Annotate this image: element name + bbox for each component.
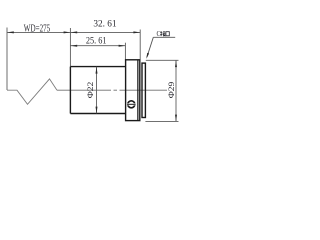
break line (zigzag) bbox=[7, 79, 57, 104]
extension line at x=70.4 bbox=[69, 28, 71, 66]
C-interface ring bbox=[142, 63, 145, 117]
dimension 25.61 bbox=[70, 36, 125, 47]
dimension Phi29 (vertical, right side) bbox=[145, 60, 178, 121]
flange bbox=[126, 60, 140, 121]
extension line left (x=7) bbox=[6, 28, 8, 91]
dimension Phi22 (vertical, inside cylinder) bbox=[85, 67, 98, 114]
extension line at x=125.4 bbox=[124, 43, 126, 60]
svg-text:Φ22: Φ22 bbox=[85, 82, 95, 99]
svg-text:32. 61: 32. 61 bbox=[93, 18, 116, 29]
svg-text:25. 61: 25. 61 bbox=[86, 36, 107, 47]
hanzi 接 bbox=[160, 31, 165, 36]
cylinder body (Phi22 shaft) bbox=[70, 67, 125, 114]
dimension WD=275 bbox=[7, 23, 70, 34]
svg-text:WD=275: WD=275 bbox=[24, 23, 50, 34]
hanzi 口 bbox=[166, 32, 169, 36]
svg-text:C: C bbox=[157, 29, 161, 38]
extension line at x=140.2 bbox=[139, 30, 141, 60]
centerline bbox=[57, 89, 167, 91]
svg-text:Φ29: Φ29 bbox=[166, 82, 176, 99]
set screw (slotted head, side view) bbox=[127, 101, 136, 108]
dimension 32.61 bbox=[70, 18, 140, 33]
label C接口 (leader + text) bbox=[146, 29, 175, 59]
